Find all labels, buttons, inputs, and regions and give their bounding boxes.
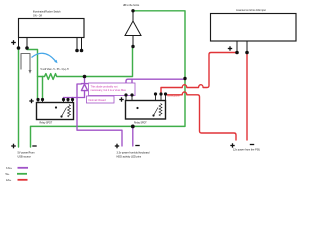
svg-text:USB source: USB source xyxy=(18,156,32,159)
svg-text:Illuminated/Rocker Switch: Illuminated/Rocker Switch xyxy=(33,11,61,14)
svg-text:ON - Off: ON - Off xyxy=(33,14,42,17)
svg-text:5 volt Vbat - 5 - Ph - C(+)-H: 5 volt Vbat - 5 - Ph - C(+)-H xyxy=(41,68,69,71)
svg-text:5V power/From: 5V power/From xyxy=(18,152,35,155)
svg-text:12v power from the PSU: 12v power from the PSU xyxy=(233,149,260,152)
svg-text:battery power: battery power xyxy=(168,95,180,98)
svg-text:12v+: 12v+ xyxy=(6,179,12,182)
svg-text:Relay SPDT: Relay SPDT xyxy=(40,123,53,125)
svg-text:3.3v+: 3.3v+ xyxy=(6,167,13,170)
svg-text:This diode probably not: This diode probably not xyxy=(91,85,118,89)
svg-text:necessary, but it is a Vess Ma: necessary, but it is a Vess Max xyxy=(91,88,127,92)
svg-text:dB to the horns: dB to the horns xyxy=(123,4,140,7)
svg-text:3.3v power from/old keyboard: 3.3v power from/old keyboard xyxy=(117,152,151,155)
svg-text:HDD activity LED pins: HDD activity LED pins xyxy=(117,156,142,159)
svg-text:5v+: 5v+ xyxy=(6,173,11,176)
svg-text:Relay SPDT: Relay SPDT xyxy=(134,123,147,125)
svg-text:mounted on GCLs 10k input: mounted on GCLs 10k input xyxy=(236,9,266,12)
svg-text:Normal Closed: Normal Closed xyxy=(89,98,107,102)
